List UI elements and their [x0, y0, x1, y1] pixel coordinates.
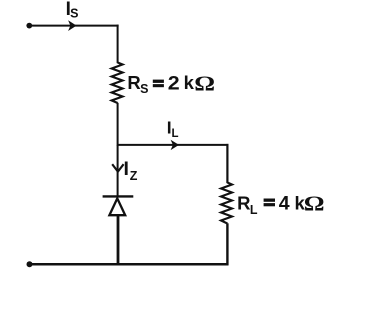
- resistor RL: [221, 183, 232, 224]
- wire branch horizontal to right: [118, 144, 229, 146]
- terminal dot bottom-left: [27, 261, 33, 267]
- zener diode triangle (anode): [109, 198, 125, 215]
- terminal dot top-left: [26, 23, 32, 29]
- label Is: [66, 0, 79, 21]
- label IL: [167, 117, 179, 140]
- label RL value: [237, 192, 324, 217]
- svg-text:S: S: [70, 7, 78, 21]
- wire top horizontal: [29, 25, 118, 27]
- wire right vertical (resistor RL to bottom): [226, 223, 228, 265]
- label Rs value: [127, 72, 215, 96]
- label Iz: [124, 158, 138, 183]
- svg-text:L: L: [250, 203, 258, 217]
- wire left vertical (resistor Rs to node): [117, 103, 119, 146]
- wire left vertical (top to resistor Rs): [117, 25, 119, 64]
- svg-text:R: R: [127, 72, 140, 93]
- svg-text:I: I: [124, 158, 129, 180]
- svg-text:L: L: [172, 128, 179, 140]
- svg-text:Ω: Ω: [304, 193, 325, 216]
- svg-text:R: R: [237, 192, 250, 213]
- resistor Rs: [112, 63, 123, 104]
- current arrow Is: [68, 20, 76, 31]
- svg-text:S: S: [140, 82, 148, 96]
- svg-text:Ω: Ω: [194, 73, 215, 96]
- current arrow IL: [171, 140, 179, 150]
- wire bottom horizontal: [30, 263, 229, 266]
- svg-text:k: k: [184, 72, 195, 93]
- svg-text:Z: Z: [130, 169, 138, 183]
- svg-text:4: 4: [279, 193, 290, 215]
- wire below diode: [117, 215, 120, 265]
- current arrow Iz (chevron): [112, 164, 123, 171]
- wire right vertical (branch corner to resistor RL): [226, 144, 228, 183]
- wire zener branch vertical (node to diode bar): [117, 145, 119, 196]
- zener diode cathode bar: [103, 195, 134, 197]
- svg-text:2: 2: [168, 72, 180, 94]
